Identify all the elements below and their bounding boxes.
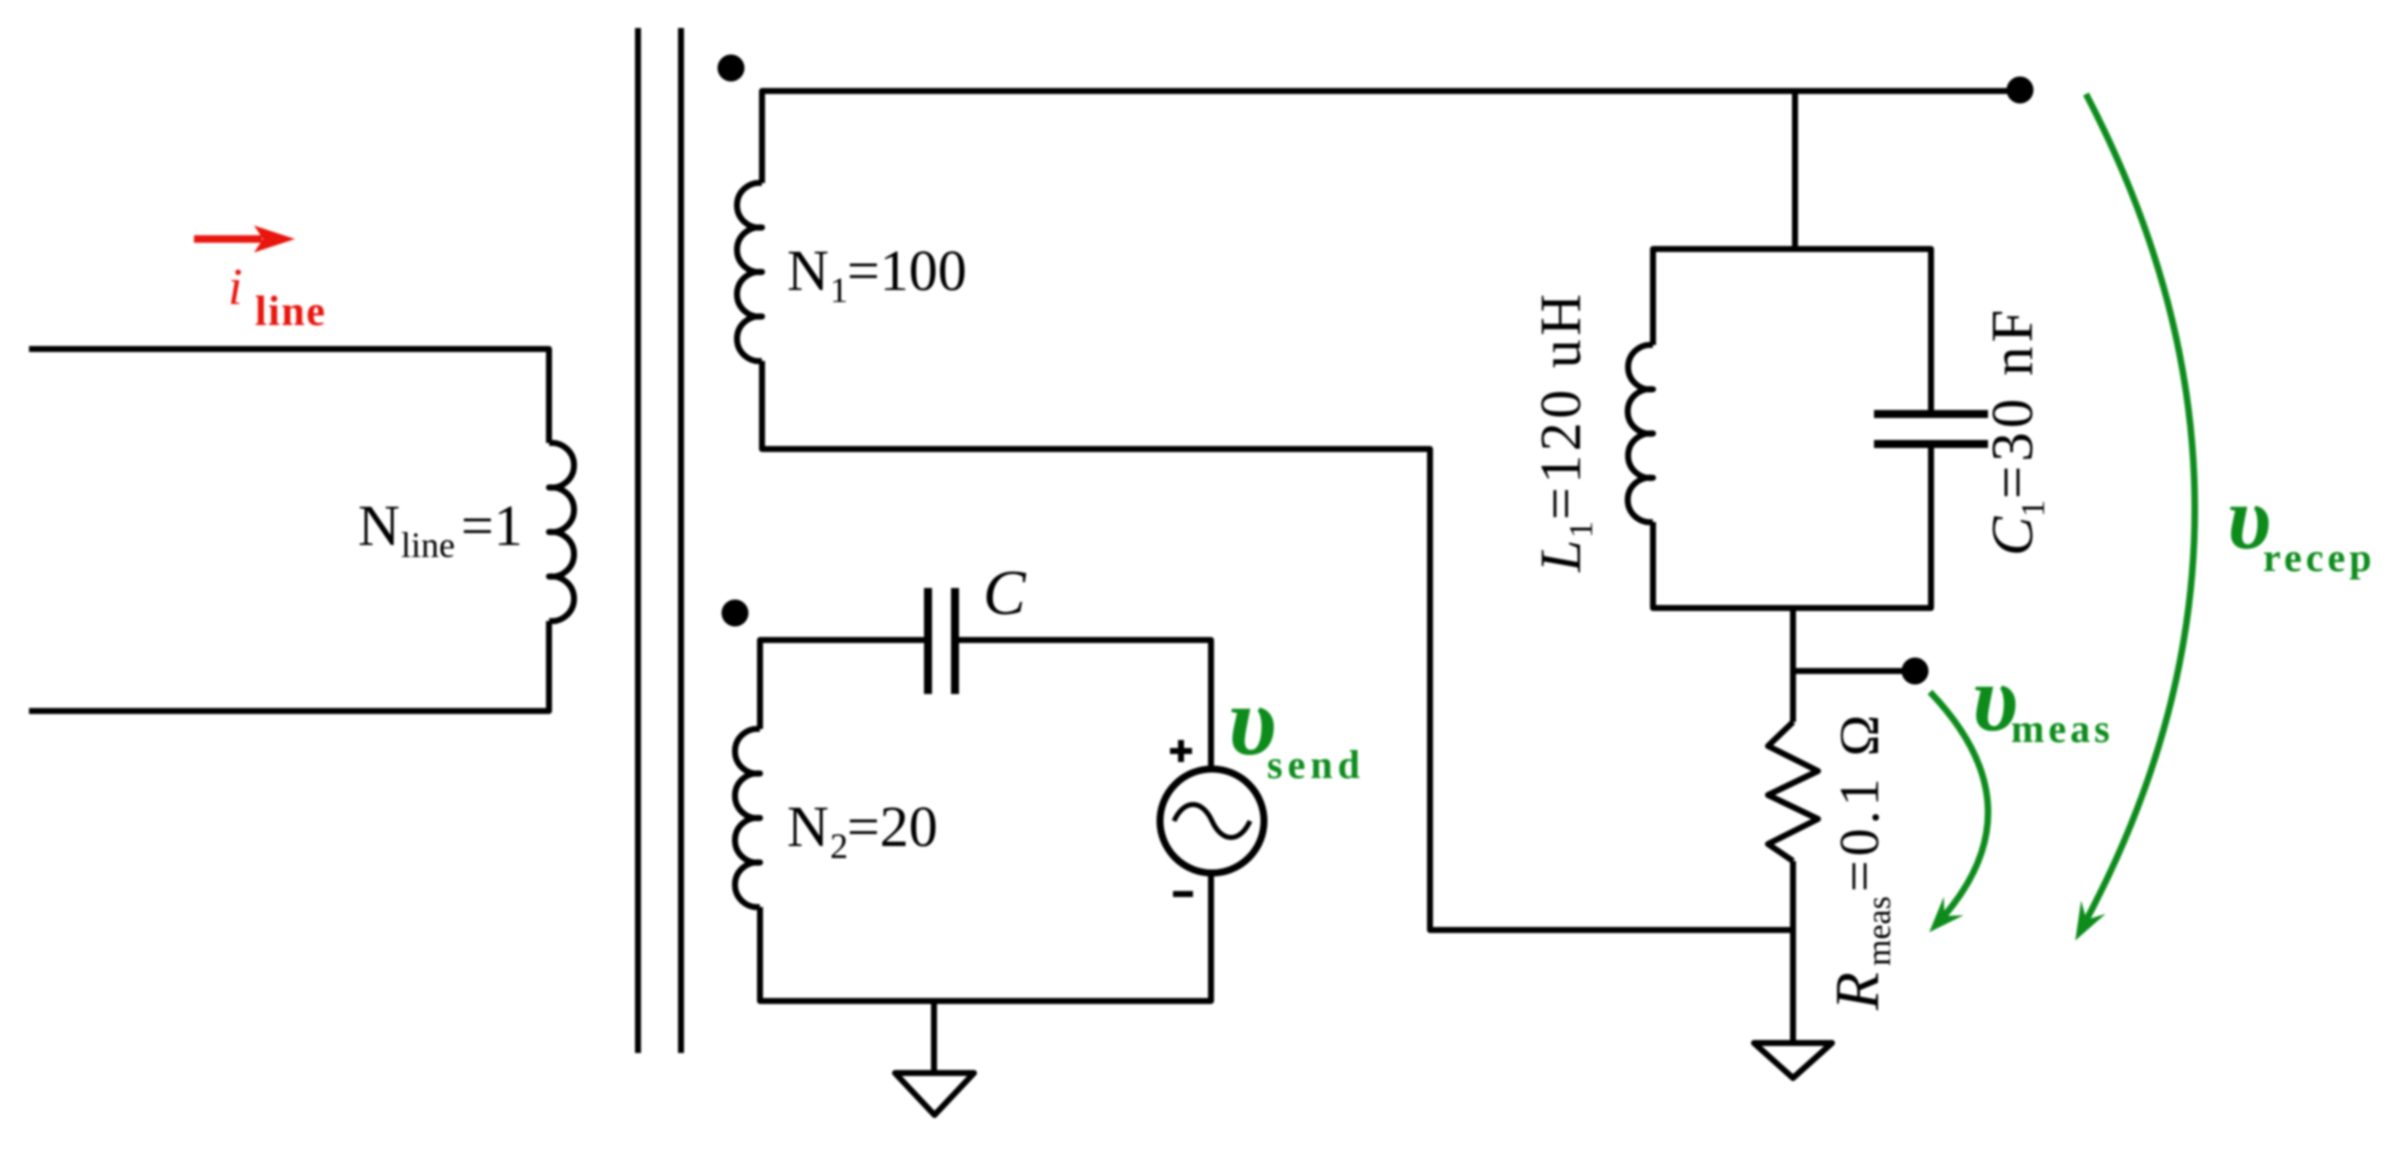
svg-text:C: C: [1979, 516, 2045, 556]
svg-text:L: L: [1528, 540, 1593, 573]
svg-text:=30 nF: =30 nF: [1979, 306, 2045, 499]
svg-text:N: N: [787, 794, 829, 859]
svg-text:1: 1: [1563, 521, 1600, 538]
wire: resistor to ground: [1790, 861, 1796, 1041]
transformer core line 1: [635, 28, 641, 1053]
wire: capacitor to source top: [955, 640, 1211, 769]
inductor N_line winding (bulge right): [549, 443, 574, 621]
svg-text:meas: meas: [2011, 706, 2114, 751]
sine wave inside source: [1174, 805, 1250, 838]
svg-text:R: R: [1824, 972, 1892, 1011]
svg-text:C: C: [983, 557, 1027, 628]
wire: primary line top: [29, 349, 549, 443]
svg-text:line: line: [401, 525, 455, 565]
ground N2 stub: [931, 1001, 937, 1071]
wire: v_meas node stub: [1793, 668, 1905, 674]
svg-text:N: N: [358, 493, 400, 558]
svg-text:recep: recep: [2263, 535, 2376, 580]
ground N2 triangle: [895, 1073, 974, 1115]
svg-text:=100: =100: [847, 238, 967, 303]
label v_meas (green): [1972, 647, 2114, 751]
phase dot N2: [722, 600, 749, 627]
voltage arrow v_meas (green): [1930, 692, 1988, 925]
inductor L1 winding (bulge left): [1628, 345, 1653, 522]
svg-text:line: line: [255, 289, 326, 335]
label R_meas=0.1 Ohm (rotated): [1824, 711, 1898, 1011]
minus sign: [1173, 891, 1193, 897]
svg-text:2: 2: [830, 826, 848, 866]
wire: tank bottom to node: [1790, 608, 1796, 722]
svg-text:=0.1 Ω: =0.1 Ω: [1829, 711, 1891, 892]
svg-text:=20: =20: [847, 794, 938, 859]
wire: top node down to tank: [1792, 91, 1798, 249]
label v_recep (green): [2227, 469, 2376, 580]
transformer core line 2: [678, 28, 684, 1053]
inductor N2 winding (bulge left): [735, 729, 760, 907]
svg-text:1: 1: [830, 270, 848, 310]
svg-text:meas: meas: [1861, 896, 1898, 966]
wire: N2 top to capacitor C: [760, 640, 928, 729]
wire: primary line bottom: [29, 621, 549, 711]
label v_send (green): [1228, 667, 1365, 787]
voltage arrow v_recep (green): [2081, 94, 2195, 930]
inductor N1 winding (bulge left): [737, 183, 762, 361]
capacitor C plates: [924, 588, 932, 694]
wire: source bottom to N2 bottom: [760, 873, 1211, 1001]
tank box bottom: [1653, 448, 1931, 608]
label L1=120 uH (rotated): [1528, 290, 1600, 573]
phase dot N1: [718, 55, 745, 82]
svg-text:=1: =1: [461, 493, 523, 558]
tank box top: [1653, 249, 1931, 410]
node dot top right: [2007, 77, 2034, 104]
label N1=100: [787, 238, 967, 310]
current arrow i_line (red): [194, 226, 295, 253]
label C1=30 nF (rotated): [1979, 306, 2052, 556]
svg-text:i: i: [228, 259, 242, 316]
svg-text:N: N: [787, 238, 829, 303]
wire: N1 top to right node: [762, 91, 2020, 183]
voltage source v_send circle: [1160, 769, 1264, 873]
label i_line (red): [228, 259, 326, 335]
plus sign: [1170, 740, 1192, 762]
capacitor C1 plates: [1874, 410, 1988, 418]
svg-text:send: send: [1267, 742, 1365, 787]
label N_line=1: [358, 493, 523, 565]
wire: N1 bottom to resistor branch: [762, 361, 1793, 930]
label N2=20: [787, 794, 938, 866]
svg-text:=120 uH: =120 uH: [1528, 290, 1593, 520]
svg-text:1: 1: [2015, 500, 2052, 517]
node dot v_meas: [1902, 658, 1929, 685]
ground R triangle: [1754, 1043, 1832, 1078]
resistor R_meas zigzag: [1768, 722, 1818, 861]
